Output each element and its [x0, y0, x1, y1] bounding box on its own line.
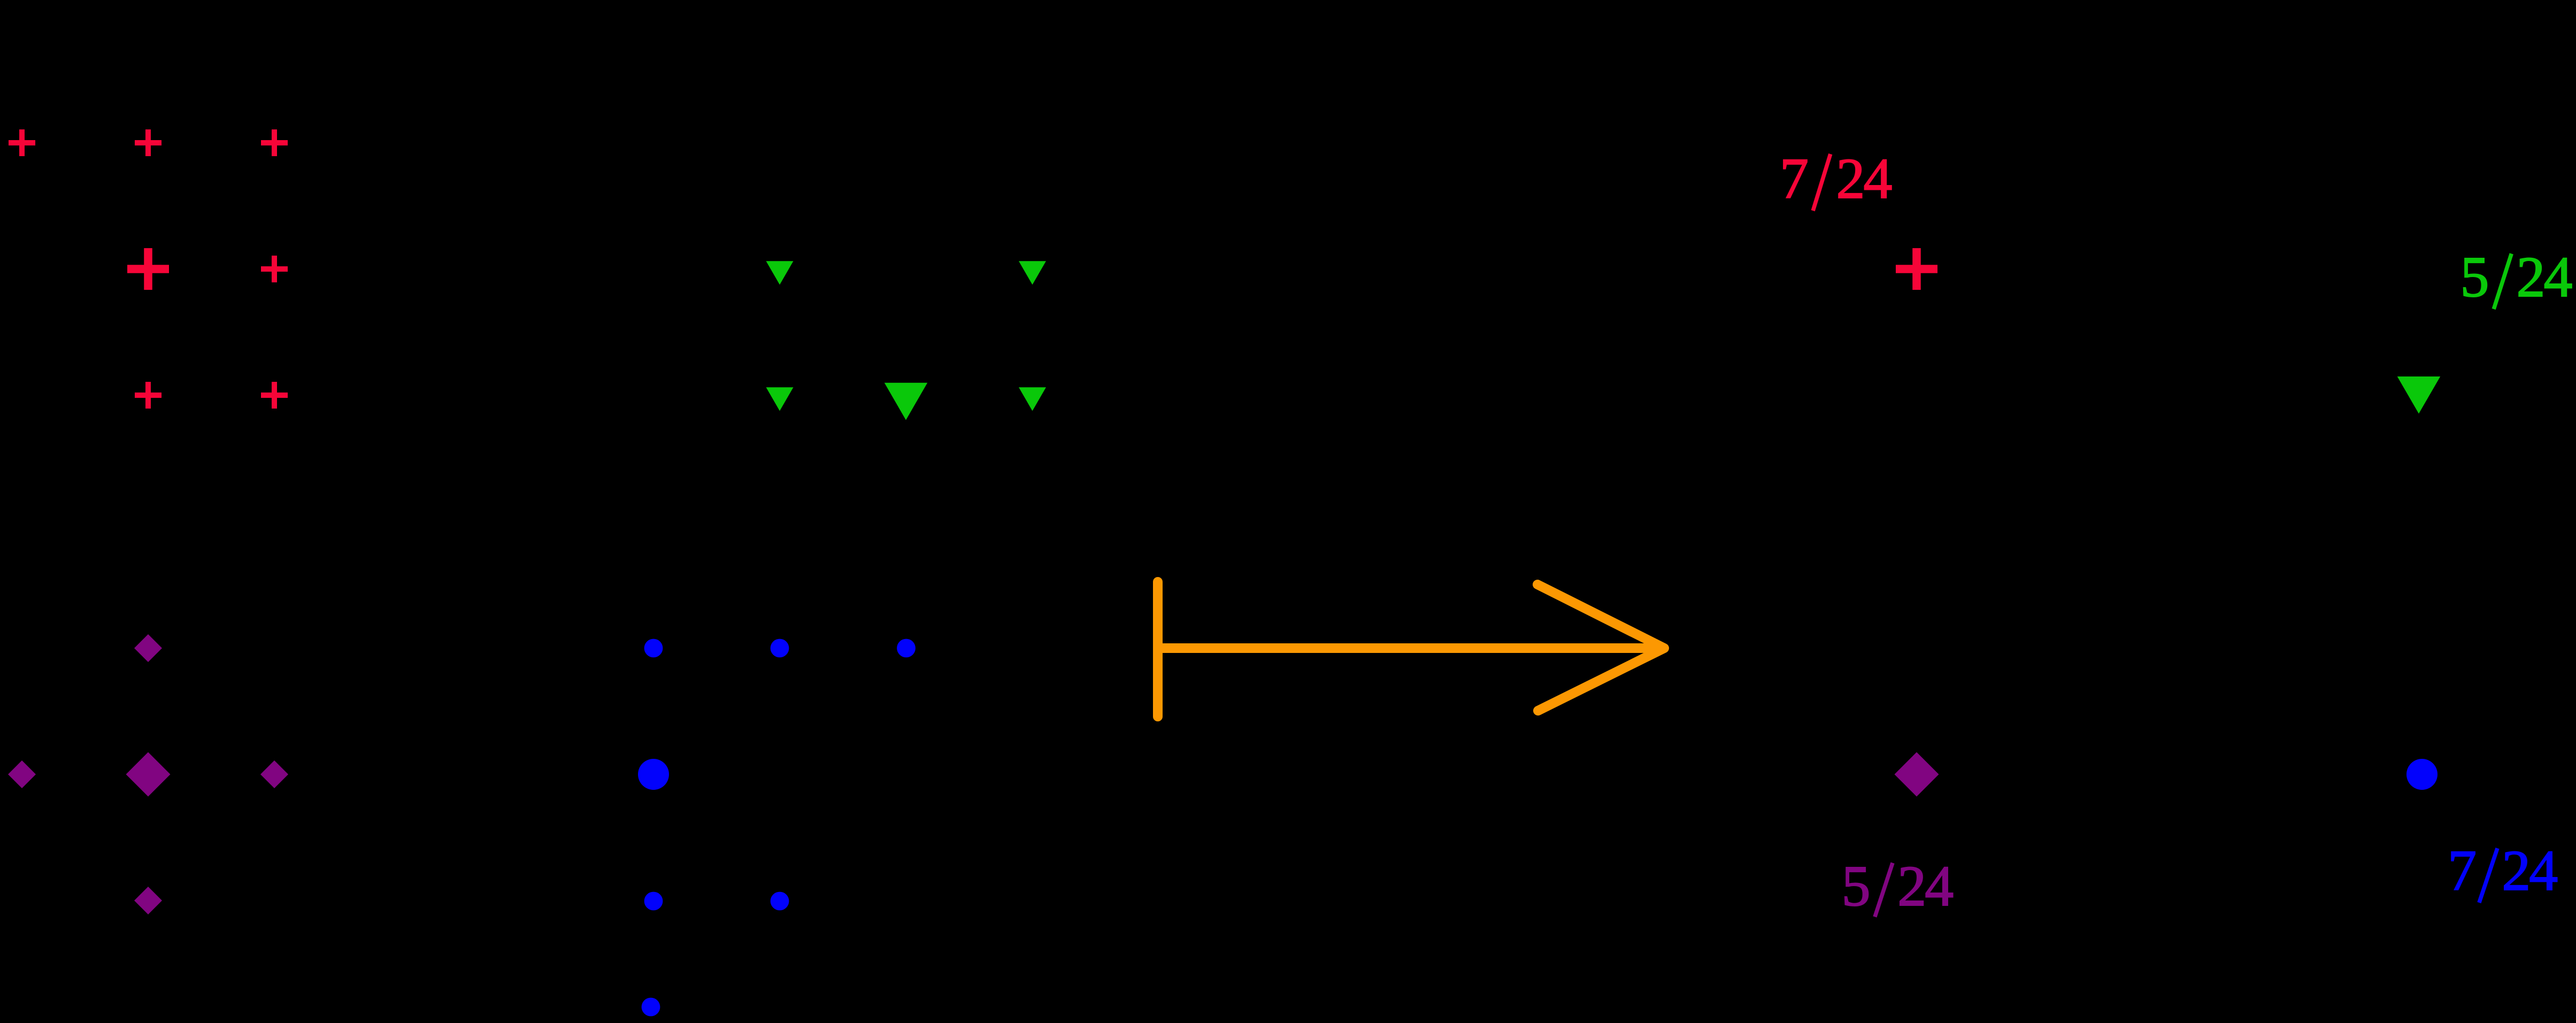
green triangle small (1929,503): [1019, 261, 1046, 284]
red plus small (277,739): [135, 382, 162, 409]
green triangle LARGE (1694,739): [885, 383, 928, 420]
svg-text:7: 7: [2448, 839, 2477, 903]
purple diamond small (277,1212): [134, 634, 162, 662]
purple diamond LARGE right (3584,1448): [1895, 752, 1939, 797]
blue dot small (1222,1685): [644, 892, 663, 911]
svg-text:7: 7: [1780, 147, 1809, 211]
green triangle small (1458,503): [766, 261, 794, 284]
red plus LARGE right (3584,503): [1896, 248, 1937, 290]
red plus small (41,267): [9, 129, 35, 156]
purple diamond LARGE (277,1448): [126, 752, 171, 797]
orange mapsto arrow: [1158, 582, 1664, 717]
red plus LARGE (277,503): [127, 248, 169, 290]
red plus small (513,739): [261, 382, 288, 409]
green triangle LARGE right (4523,727): [2397, 376, 2441, 414]
blue dot LARGE (1222,1448): [638, 759, 669, 790]
svg-text:24: 24: [2517, 245, 2572, 309]
svg-text:24: 24: [1897, 855, 1953, 918]
red plus small (513,267): [261, 129, 288, 156]
purple weight label 5/24: [1842, 855, 1954, 918]
purple diamond small (277,1684): [134, 887, 162, 914]
blue dot small (1458,1212): [771, 639, 789, 658]
blue dot small (1694,1212): [897, 639, 916, 658]
blue dot LARGE right (4529,1448): [2406, 759, 2437, 790]
blue weight label 7/24: [2448, 839, 2557, 903]
red weight label 7/24: [1780, 147, 1892, 211]
svg-text:24: 24: [1836, 147, 1892, 211]
green triangle small (1929,739): [1019, 387, 1046, 411]
svg-text:5: 5: [2460, 245, 2489, 309]
svg-text:5: 5: [1842, 855, 1871, 918]
svg-text:24: 24: [2502, 839, 2557, 903]
green weight label 5/24: [2460, 245, 2572, 309]
blue dot small bottom (1217,1883): [642, 998, 660, 1017]
red plus small (513,503): [261, 256, 288, 282]
purple diamond small (513,1448): [260, 760, 288, 788]
green triangle small (1458,739): [766, 387, 794, 411]
blue dot small (1222,1212): [644, 639, 663, 658]
red plus small (277,267): [135, 129, 162, 156]
purple diamond small (41,1448): [8, 760, 36, 788]
blue dot small (1458,1685): [771, 892, 789, 911]
